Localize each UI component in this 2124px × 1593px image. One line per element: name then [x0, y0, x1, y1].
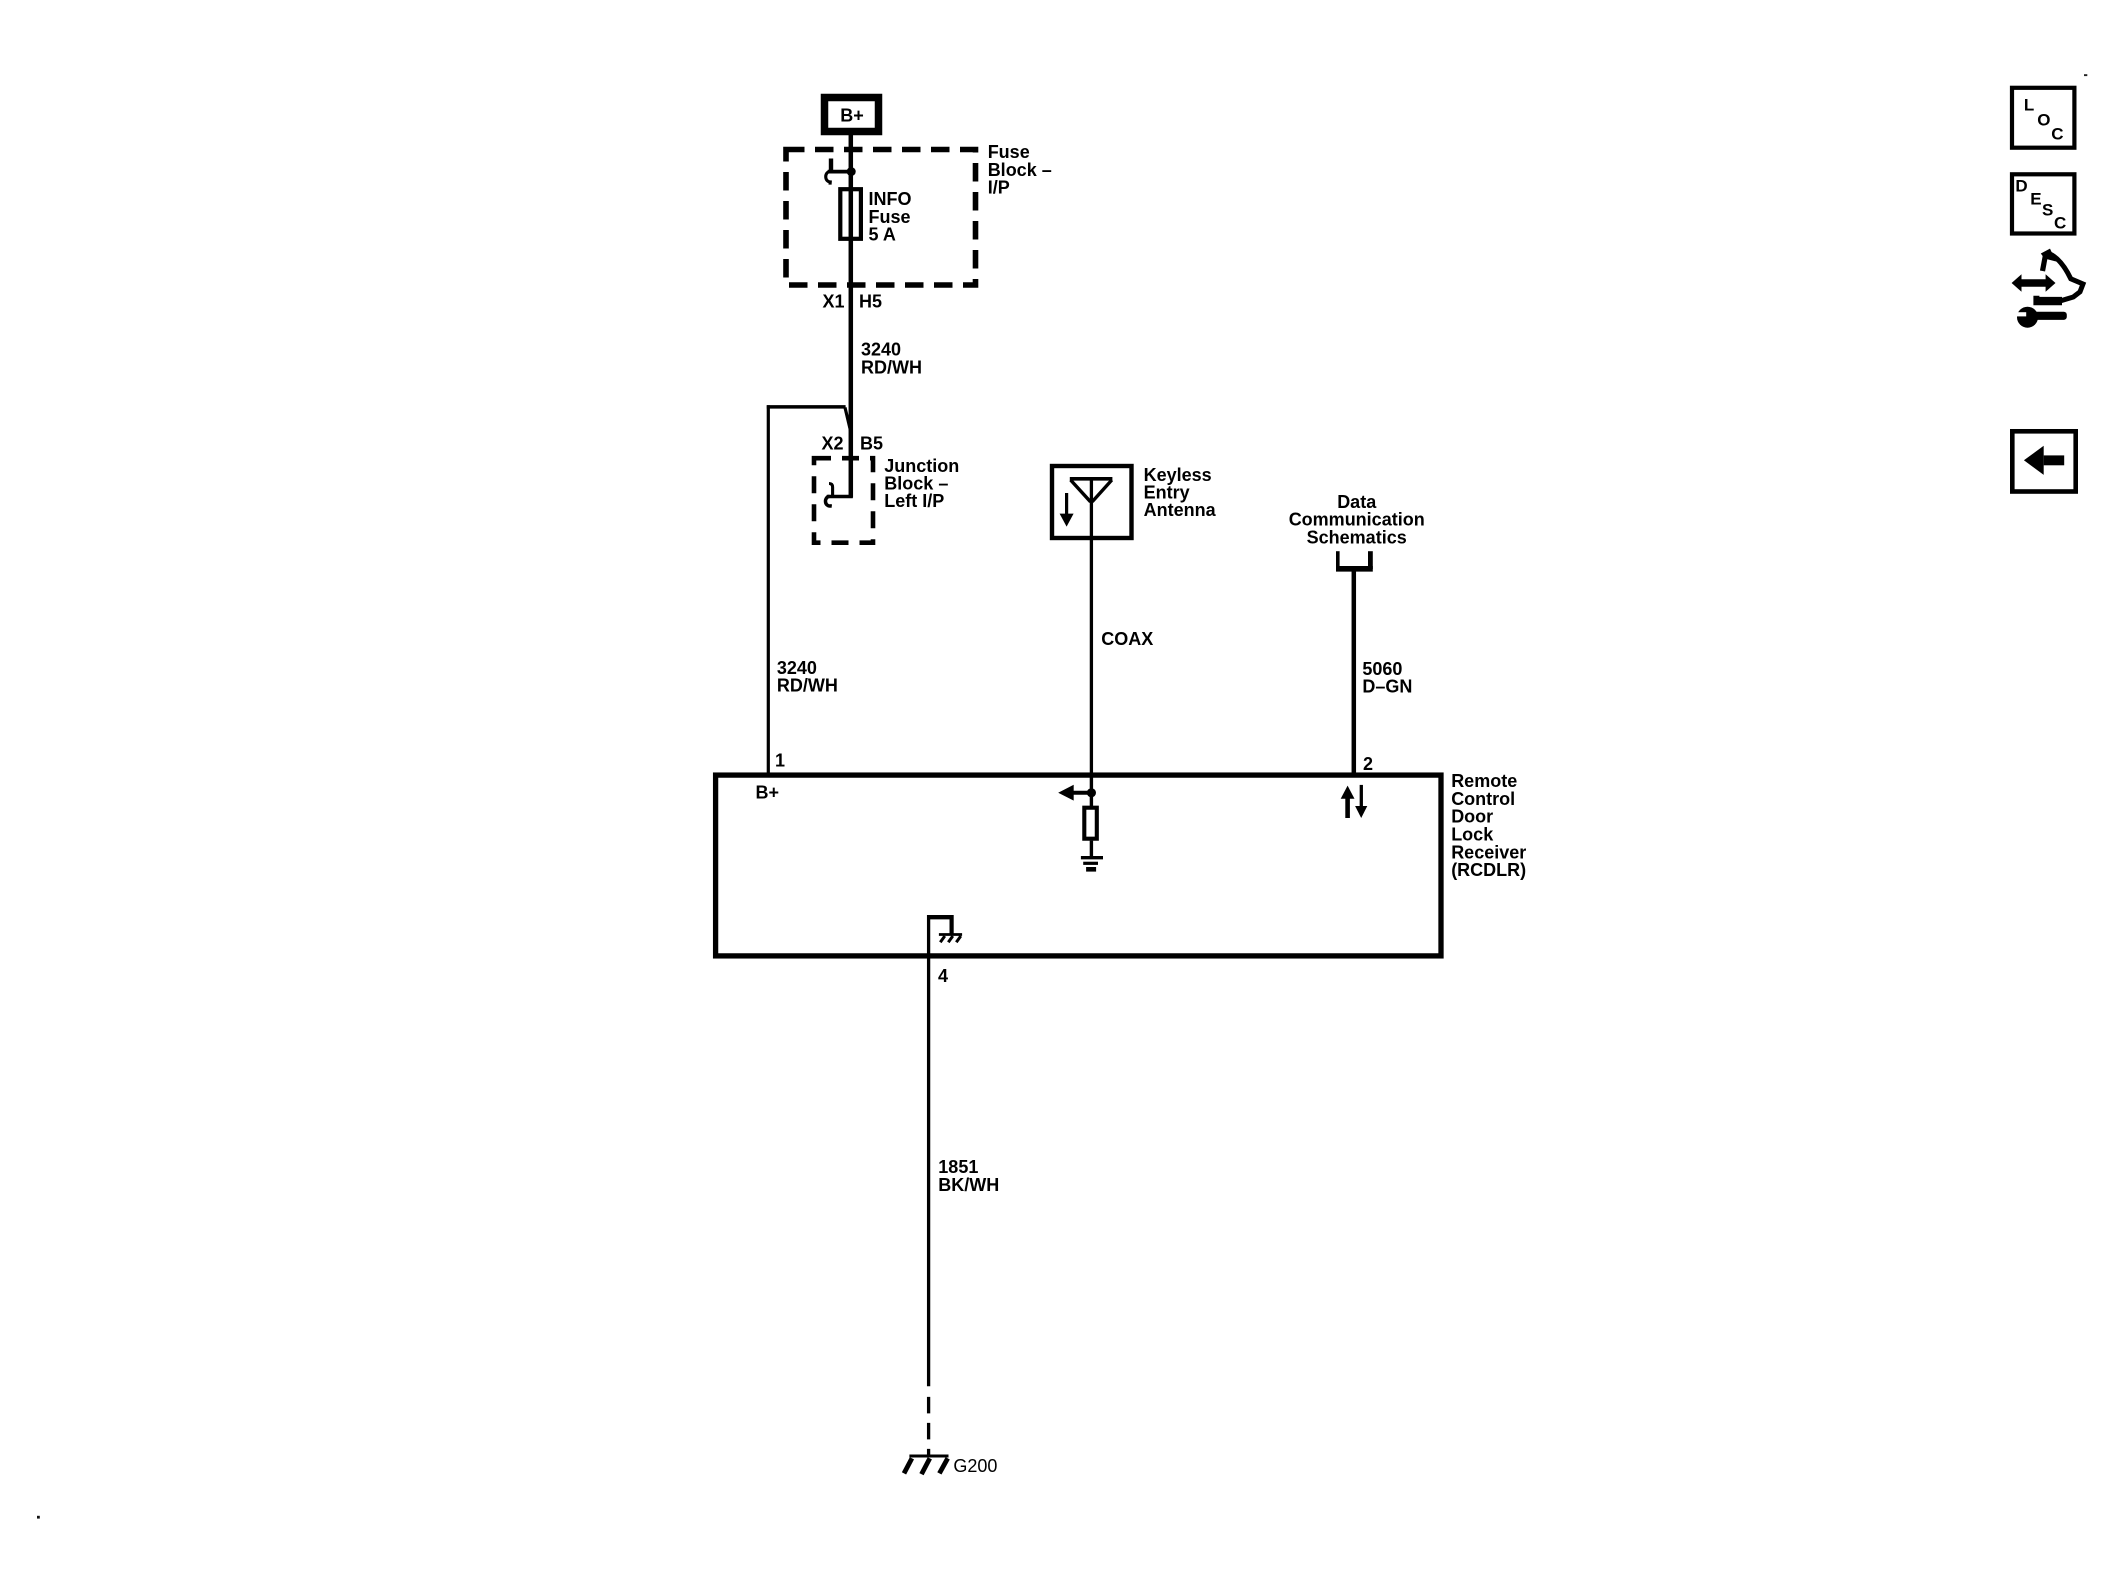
- antenna symbol: [1070, 479, 1113, 540]
- internal resistor: [1084, 808, 1097, 839]
- svg-text:X2: X2: [821, 434, 843, 454]
- fuse INFO 5 A: [840, 189, 861, 239]
- junction block left I/P dashed enclosure: [814, 458, 873, 543]
- antenna signal down arrow: [1060, 493, 1074, 527]
- nav icon: wrench: [2010, 307, 2067, 328]
- svg-text:4: 4: [938, 966, 948, 986]
- module box: Remote Control Door Lock Receiver (RCDLR): [716, 775, 1441, 956]
- svg-text:O: O: [2037, 110, 2050, 129]
- wire: serial data 5060 to pin 2: [1352, 572, 1357, 773]
- wire: diagonal splice jog: [845, 408, 851, 432]
- keyless entry antenna box: [1052, 466, 1132, 538]
- wire: ground lead 1851 from pin 4: [927, 958, 930, 1457]
- fuse block I/P dashed enclosure: [786, 150, 976, 286]
- svg-text:C: C: [2054, 214, 2066, 233]
- internal serial data up arrow: [1341, 786, 1355, 818]
- off-page connector bracket to data schematics: [1336, 551, 1373, 569]
- internal wire resistor to ground: [1090, 841, 1093, 857]
- wire: branch to RCDLR pin 1 (horizontal + left vertical): [767, 405, 846, 773]
- svg-text:H5: H5: [859, 292, 882, 312]
- wire: COAX antenna lead: [1090, 540, 1093, 773]
- svg-text:S: S: [2042, 201, 2053, 220]
- wire: B+ feed down through fuse block to junction block: [849, 135, 854, 498]
- svg-text:1: 1: [775, 751, 785, 771]
- nav icon: DESC button: [2012, 174, 2074, 233]
- svg-text:COAX: COAX: [1101, 629, 1153, 649]
- nav icon: vehicle data double arrow: [2012, 274, 2056, 292]
- svg-text:X1: X1: [822, 292, 844, 312]
- nav icon: back arrow button: [2012, 431, 2075, 491]
- internal antenna input: junction dot: [1087, 777, 1096, 806]
- nav icon: vehicle outline scribble with arrowhead: [2033, 249, 2083, 306]
- internal earth ground symbol: [1081, 858, 1103, 870]
- stray mark top right: [2084, 74, 2087, 76]
- internal serial data down arrow: [1355, 785, 1367, 818]
- connector terminal B5 inside junction block: [825, 484, 852, 507]
- svg-text:C: C: [2051, 124, 2063, 143]
- svg-text:B5: B5: [860, 434, 883, 454]
- svg-text:E: E: [2030, 189, 2041, 208]
- stray mark bottom left: [37, 1516, 40, 1519]
- internal chassis ground at pin 4: [927, 915, 962, 955]
- svg-text:B+: B+: [840, 106, 864, 126]
- ground symbol G200: [904, 1456, 949, 1474]
- svg-text:G200: G200: [953, 1456, 997, 1476]
- nav icon: LOC button: [2012, 88, 2074, 148]
- svg-text:D: D: [2015, 176, 2027, 195]
- svg-text:B+: B+: [756, 782, 780, 802]
- svg-text:2: 2: [1363, 754, 1373, 774]
- internal left-pointing arrow: [1058, 785, 1091, 801]
- svg-text:L: L: [2024, 96, 2034, 115]
- power symbol B+ battery feed: [825, 98, 879, 132]
- connector terminal X1 inside fuse block: [826, 159, 856, 185]
